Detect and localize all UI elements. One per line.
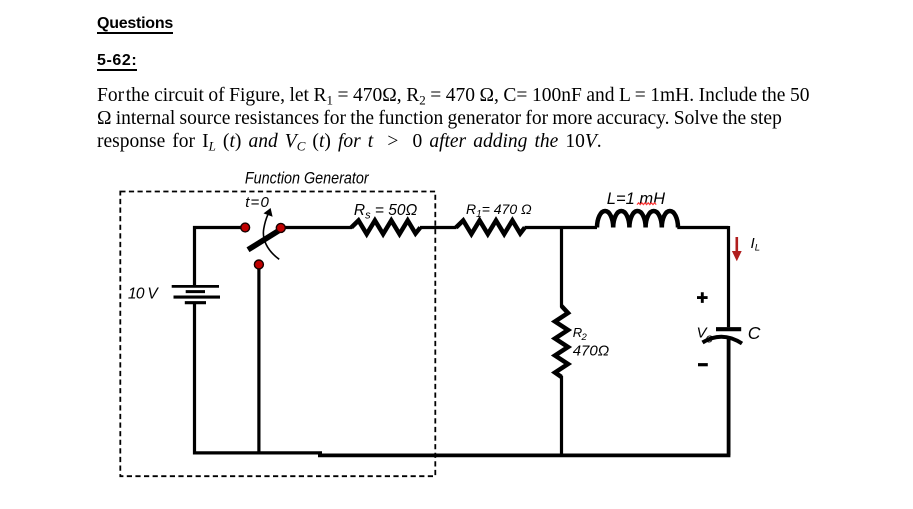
svg-text:C: C	[706, 335, 714, 346]
svg-text:Function Generator: Function Generator	[245, 169, 370, 187]
svg-text:10 V: 10 V	[128, 286, 159, 303]
svg-text:C: C	[748, 323, 761, 343]
svg-text:470Ω: 470Ω	[573, 343, 609, 360]
svg-text:L=1 mH: L=1 mH	[607, 190, 665, 208]
svg-text:L: L	[755, 243, 760, 254]
svg-text:Rs = 50Ω: Rs = 50Ω	[354, 202, 418, 221]
svg-text:t=0: t=0	[245, 194, 269, 211]
svg-text:2: 2	[581, 332, 588, 343]
svg-text:R1= 470 Ω: R1= 470 Ω	[466, 201, 532, 220]
